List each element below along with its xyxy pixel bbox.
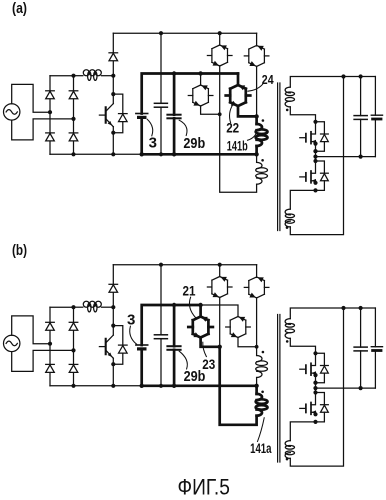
node sec-top-rail-2 — [359, 306, 363, 310]
svg-text:(a): (a) — [12, 1, 27, 17]
node bridge-top — [71, 305, 75, 309]
svg-text:22: 22 — [226, 119, 239, 135]
node mid-1 — [313, 381, 317, 385]
wire — [255, 116, 258, 124]
wire — [256, 298, 258, 347]
wire — [290, 77, 343, 235]
node bridge-left-mid — [48, 110, 52, 114]
wire (mid rail) — [316, 156, 376, 158]
diode D2 — [69, 323, 78, 331]
capacitor (output 1) — [360, 308, 362, 347]
node bridge-right-mid — [71, 348, 75, 352]
transistor (MOSFET) — [311, 353, 316, 365]
node sec-top-rail-1 — [341, 306, 345, 310]
capacitor (output 2, polarized) — [374, 308, 376, 347]
capacitor (filter) — [160, 265, 162, 335]
thyristor-pair (mid-left) — [193, 85, 209, 89]
wire — [49, 307, 51, 386]
transformer core — [277, 315, 279, 463]
inductor (upper primary winding) — [257, 356, 262, 362]
capacitor (output 2, polarized) — [374, 77, 376, 116]
AC source V1 — [4, 104, 20, 120]
node 29b-bottom — [172, 384, 176, 388]
inductor L1 — [83, 301, 89, 307]
node bridge-bottom — [71, 384, 75, 388]
thyristor-pair 21 (mid-left) — [193, 317, 209, 321]
node top-rail-2 — [218, 31, 222, 35]
node top-rail-2 — [218, 263, 222, 267]
diode D4 — [69, 365, 78, 373]
phase dot (lower primary) — [261, 159, 264, 162]
diode D3 — [46, 365, 55, 373]
diode D5 (boost) — [109, 285, 118, 293]
capacitor 3 — [136, 113, 148, 115]
wire — [315, 144, 317, 161]
wire (top rail) — [113, 264, 256, 266]
wire — [256, 378, 258, 386]
wire — [220, 114, 257, 192]
wire — [290, 308, 343, 466]
transformer core — [277, 83, 279, 231]
wire — [73, 307, 75, 386]
wire — [12, 350, 74, 371]
node ML-stub-top — [198, 71, 202, 75]
node L1-out — [111, 305, 115, 309]
node mid-2 — [313, 386, 317, 390]
wire — [256, 33, 258, 46]
wire — [256, 154, 258, 162]
node Q1-collector — [111, 324, 115, 328]
diode (MOSFET anti-parallel) — [316, 161, 325, 173]
svg-text:ФИГ.5: ФИГ.5 — [178, 475, 230, 500]
node L1-out — [111, 74, 115, 78]
wire — [74, 75, 83, 77]
wire — [290, 77, 375, 88]
wire — [255, 386, 258, 394]
diode (IGBT anti-parallel) — [113, 94, 123, 114]
transistor (MOSFET) — [311, 122, 316, 134]
wire — [49, 76, 51, 155]
diode (MOSFET anti-parallel) — [316, 393, 325, 405]
inductor (upper secondary winding) — [285, 87, 290, 93]
wire — [199, 305, 202, 317]
node winding-mid — [254, 384, 258, 388]
inductor (lower secondary winding) — [285, 441, 290, 447]
wire — [112, 33, 114, 53]
svg-text:3: 3 — [149, 134, 157, 151]
svg-text:3: 3 — [127, 312, 135, 329]
node bridge-right-mid — [71, 117, 75, 121]
svg-text:141b: 141b — [227, 137, 248, 153]
inductor (lower secondary winding) — [285, 209, 290, 215]
AC source V1 — [4, 335, 20, 351]
phase dot (upper primary) — [262, 351, 265, 354]
node mid-2 — [313, 155, 317, 159]
node 29b-bottom — [172, 152, 176, 156]
wire — [219, 66, 221, 114]
node 29b-top — [172, 71, 176, 75]
capacitor 29b — [173, 74, 176, 115]
node Cm-bottom — [159, 152, 163, 156]
node C3-bottom — [140, 152, 144, 156]
phase dot (lower secondary) — [286, 226, 289, 229]
wire (mid rail) — [316, 387, 376, 389]
wire — [12, 84, 50, 112]
wire (thick top rail) — [142, 305, 201, 345]
wire (bottom rail thick) — [142, 153, 257, 156]
wire — [112, 307, 114, 325]
wire (thin link) — [201, 305, 238, 317]
wire — [74, 306, 83, 308]
node bridge-top — [71, 74, 75, 78]
node bridge-bottom — [71, 152, 75, 156]
transistor (MOSFET) — [311, 161, 316, 173]
node right-elbow — [255, 345, 259, 349]
thyristor-pair (top-left) — [212, 45, 228, 49]
wire (thick top rail) — [142, 74, 238, 114]
node C3-bottom — [140, 384, 144, 388]
transistor (MOSFET) — [311, 393, 316, 405]
phase dot (upper primary) — [262, 119, 265, 122]
node Cm-bottom — [159, 384, 163, 388]
wire — [102, 306, 114, 308]
wire (top rail) — [113, 32, 256, 34]
wire (thick stub to 22) — [237, 74, 240, 86]
thyristor-pair (top-left) — [212, 277, 228, 281]
node Q1-emitter — [111, 131, 115, 135]
svg-text:29b: 29b — [184, 368, 206, 385]
node top-rail-1 — [159, 263, 163, 267]
wire — [112, 265, 114, 285]
wire — [112, 326, 114, 336]
wire — [256, 347, 258, 356]
node mid-rail-cap — [359, 386, 363, 390]
diode D5 (boost) — [109, 53, 118, 61]
wire — [50, 306, 74, 308]
wire — [256, 66, 258, 116]
thyristor-pair 22 (mid-right) — [230, 85, 246, 89]
wire — [112, 133, 114, 155]
node left-elbow — [218, 345, 222, 349]
wire — [112, 293, 114, 307]
wire — [200, 74, 202, 86]
node ML-stub-top — [198, 303, 202, 307]
svg-text:29b: 29b — [183, 135, 205, 152]
node 29b-top — [172, 303, 176, 307]
node left-elbow — [218, 112, 222, 116]
transistor Q (IGBT) — [105, 339, 107, 354]
node mid-1 — [313, 149, 317, 153]
inductor (upper secondary winding) — [285, 319, 290, 325]
thyristor-pair (mid-right) — [230, 317, 246, 321]
svg-text:(b): (b) — [12, 243, 27, 259]
wire (bottom rail thick) — [142, 384, 257, 387]
svg-text:24: 24 — [262, 72, 274, 87]
wire — [315, 375, 317, 392]
capacitor 29b — [173, 305, 176, 346]
node bridge-left-mid — [48, 342, 52, 346]
diode (IGBT anti-parallel) — [113, 326, 123, 346]
inductor 141a (lower primary winding) — [257, 394, 262, 400]
wire — [219, 265, 221, 277]
wire (bottom rail thin) — [50, 385, 142, 387]
inductor L1 — [83, 70, 89, 76]
transistor Q (IGBT) — [105, 107, 107, 122]
node Q1-bottom — [111, 384, 115, 388]
diode D2 — [69, 91, 78, 99]
capacitor 3 — [136, 344, 148, 346]
thyristor-pair (top-right) — [249, 277, 265, 281]
wire — [112, 94, 114, 104]
wire — [50, 75, 74, 77]
wire — [219, 33, 221, 45]
diode (MOSFET anti-parallel) — [316, 122, 325, 134]
wire — [112, 364, 114, 386]
diode D1 — [46, 91, 55, 99]
wire — [73, 76, 75, 155]
wire (bottom rail thin) — [50, 153, 142, 155]
diode D4 — [69, 133, 78, 141]
phase dot (lower secondary) — [286, 458, 289, 461]
wire — [255, 146, 258, 154]
node sec-top-rail-1 — [341, 74, 345, 78]
wire (right elbow) — [238, 106, 257, 116]
svg-text:21: 21 — [183, 283, 196, 299]
diode (MOSFET anti-parallel) — [316, 353, 325, 365]
node Q1-collector — [111, 92, 115, 96]
phase dot (lower primary) — [261, 391, 264, 394]
capacitor (filter) — [160, 33, 162, 103]
phase dot (upper secondary) — [286, 340, 289, 343]
node right-elbow — [254, 114, 258, 118]
wire — [12, 316, 50, 344]
wire (right elbow) — [238, 338, 257, 347]
phase dot (upper secondary) — [286, 109, 289, 112]
wire — [256, 265, 258, 278]
capacitor (output 1) — [360, 77, 362, 116]
wire — [102, 75, 114, 77]
thyristor-pair (top-right) — [249, 45, 265, 49]
inductor (lower primary winding) — [257, 162, 262, 168]
node top-rail-1 — [159, 31, 163, 35]
wire — [290, 190, 315, 209]
wire — [290, 338, 315, 353]
svg-text:141a: 141a — [250, 440, 272, 456]
wire — [112, 61, 114, 75]
wire — [290, 107, 315, 122]
wire — [219, 298, 221, 347]
node Q1-bottom — [111, 152, 115, 156]
node Q1-emitter — [111, 362, 115, 366]
inductor 141b (upper primary winding) — [257, 124, 262, 130]
wire — [12, 119, 74, 140]
node winding-mid — [254, 152, 258, 156]
wire (left elbow) — [201, 106, 220, 114]
node sec-top-rail-2 — [359, 74, 363, 78]
wire — [290, 422, 315, 441]
wire — [112, 76, 114, 94]
node mid-rail-cap — [359, 155, 363, 159]
diode D1 — [46, 323, 55, 331]
wire (left elbow) — [201, 338, 220, 347]
diode D3 — [46, 133, 55, 141]
wire (thick loop) — [220, 347, 257, 425]
wire — [290, 308, 375, 319]
